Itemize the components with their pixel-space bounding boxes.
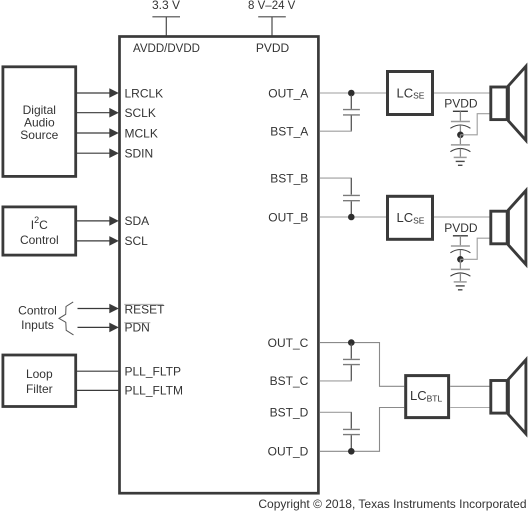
- wire BST_B: [320, 177, 352, 179]
- filter block LC_SE B: [388, 196, 433, 239]
- svg-text:OUT_D: OUT_D: [268, 445, 309, 459]
- svg-text:SCL: SCL: [125, 234, 149, 248]
- filter block LC_BTL: [406, 376, 449, 418]
- node junction OUT_B: [348, 214, 355, 221]
- IC block U1: [120, 37, 319, 494]
- ground B: [454, 282, 467, 290]
- node junction OUT_C: [348, 339, 355, 346]
- svg-text:Filter: Filter: [26, 382, 53, 396]
- svg-text:OUT_C: OUT_C: [268, 336, 309, 350]
- wire RESET with arrow: [78, 304, 119, 314]
- label Control Inputs: [18, 303, 57, 332]
- svg-text:BST_A: BST_A: [270, 124, 308, 138]
- wire PDN with arrow: [78, 323, 119, 333]
- svg-text:Control: Control: [20, 233, 59, 247]
- pin label PDN with overline: [124, 321, 150, 335]
- svg-text:PVDD: PVDD: [256, 41, 290, 55]
- wire PLL_FLTP: [77, 370, 119, 372]
- brace for control inputs: [59, 302, 74, 335]
- polarized capacitor B2: [450, 259, 470, 281]
- wire LC_BTL to speaker upper: [450, 385, 490, 387]
- bootstrap capacitor A: [343, 95, 360, 131]
- svg-text:Control: Control: [18, 303, 57, 317]
- wire BST_D: [320, 411, 352, 413]
- block Digital Audio Source: [3, 67, 76, 177]
- wire SCLK with arrow: [77, 108, 119, 118]
- svg-text:AVDD/DVDD: AVDD/DVDD: [133, 43, 200, 55]
- wire BST_A: [320, 130, 352, 132]
- svg-text:PLL_FLTP: PLL_FLTP: [125, 365, 181, 379]
- wire junction A to speaker: [460, 114, 490, 135]
- supply rail PVDD B: [453, 236, 468, 246]
- wire 8V-24V to PVDD: [271, 17, 273, 37]
- svg-text:SDA: SDA: [125, 214, 150, 228]
- svg-text:PVDD: PVDD: [444, 221, 478, 235]
- wire SDA with arrow: [77, 216, 119, 226]
- wire LC_SE A to speaker: [434, 92, 490, 94]
- polarized capacitor A2: [450, 135, 470, 157]
- wire LC_SE B to speaker: [434, 216, 490, 218]
- svg-text:3.3 V: 3.3 V: [152, 0, 180, 12]
- node junction PVDD A: [457, 132, 464, 139]
- wire PLL_FLTM: [77, 389, 119, 391]
- speaker B: [491, 191, 526, 265]
- svg-text:SCLK: SCLK: [125, 106, 156, 120]
- bootstrap capacitor D: [343, 412, 360, 451]
- svg-text:MCLK: MCLK: [125, 126, 158, 140]
- svg-text:SDIN: SDIN: [125, 147, 154, 161]
- bootstrap capacitor B: [343, 178, 360, 217]
- supply rail bar 3.3V: [152, 16, 180, 18]
- svg-text:OUT_B: OUT_B: [268, 210, 308, 224]
- wire OUT_C: [320, 343, 404, 387]
- ground A: [454, 157, 467, 165]
- filter block LC_SE A: [388, 72, 433, 115]
- svg-text:LRCLK: LRCLK: [125, 86, 164, 100]
- svg-text:8 V–24 V: 8 V–24 V: [248, 0, 296, 12]
- svg-text:Inputs: Inputs: [21, 318, 54, 332]
- block Loop Filter: [3, 355, 76, 407]
- svg-text:BST_B: BST_B: [270, 171, 308, 185]
- block I2C Control: [3, 207, 76, 255]
- wire OUT_D: [320, 408, 404, 452]
- wire 3.3V to AVDD/DVDD: [165, 17, 167, 37]
- wire OUT_B: [320, 216, 386, 218]
- svg-text:I2C: I2C: [31, 215, 48, 232]
- wire SCL with arrow: [77, 236, 119, 246]
- wire LRCLK with arrow: [77, 88, 119, 98]
- polarized capacitor A1: [450, 122, 470, 135]
- node junction OUT_A: [348, 90, 355, 97]
- svg-text:PLL_FLTM: PLL_FLTM: [125, 384, 183, 398]
- bootstrap capacitor C: [343, 344, 360, 381]
- node junction OUT_D: [348, 448, 355, 455]
- wire LC_BTL to speaker lower: [450, 407, 490, 409]
- wire MCLK with arrow: [77, 128, 119, 138]
- speaker A: [491, 66, 526, 140]
- polarized capacitor B1: [450, 246, 470, 259]
- svg-text:BST_D: BST_D: [270, 406, 309, 420]
- wire OUT_A: [320, 92, 386, 94]
- svg-text:PVDD: PVDD: [444, 97, 478, 111]
- node junction PVDD B: [457, 256, 464, 263]
- wire SDIN with arrow: [77, 148, 119, 158]
- wire BST_C: [320, 380, 352, 382]
- svg-text:Copyright © 2018, Texas Instru: Copyright © 2018, Texas Instruments Inco…: [258, 497, 526, 511]
- svg-text:Source: Source: [20, 128, 58, 142]
- svg-text:Loop: Loop: [26, 367, 53, 381]
- supply rail PVDD A: [453, 111, 468, 121]
- wire junction B to speaker: [460, 238, 490, 259]
- supply rail bar 8V-24V: [258, 16, 286, 18]
- speaker C: [491, 360, 526, 434]
- svg-text:BST_C: BST_C: [270, 374, 309, 388]
- pin label RESET with overline: [124, 303, 165, 317]
- svg-text:OUT_A: OUT_A: [268, 86, 308, 100]
